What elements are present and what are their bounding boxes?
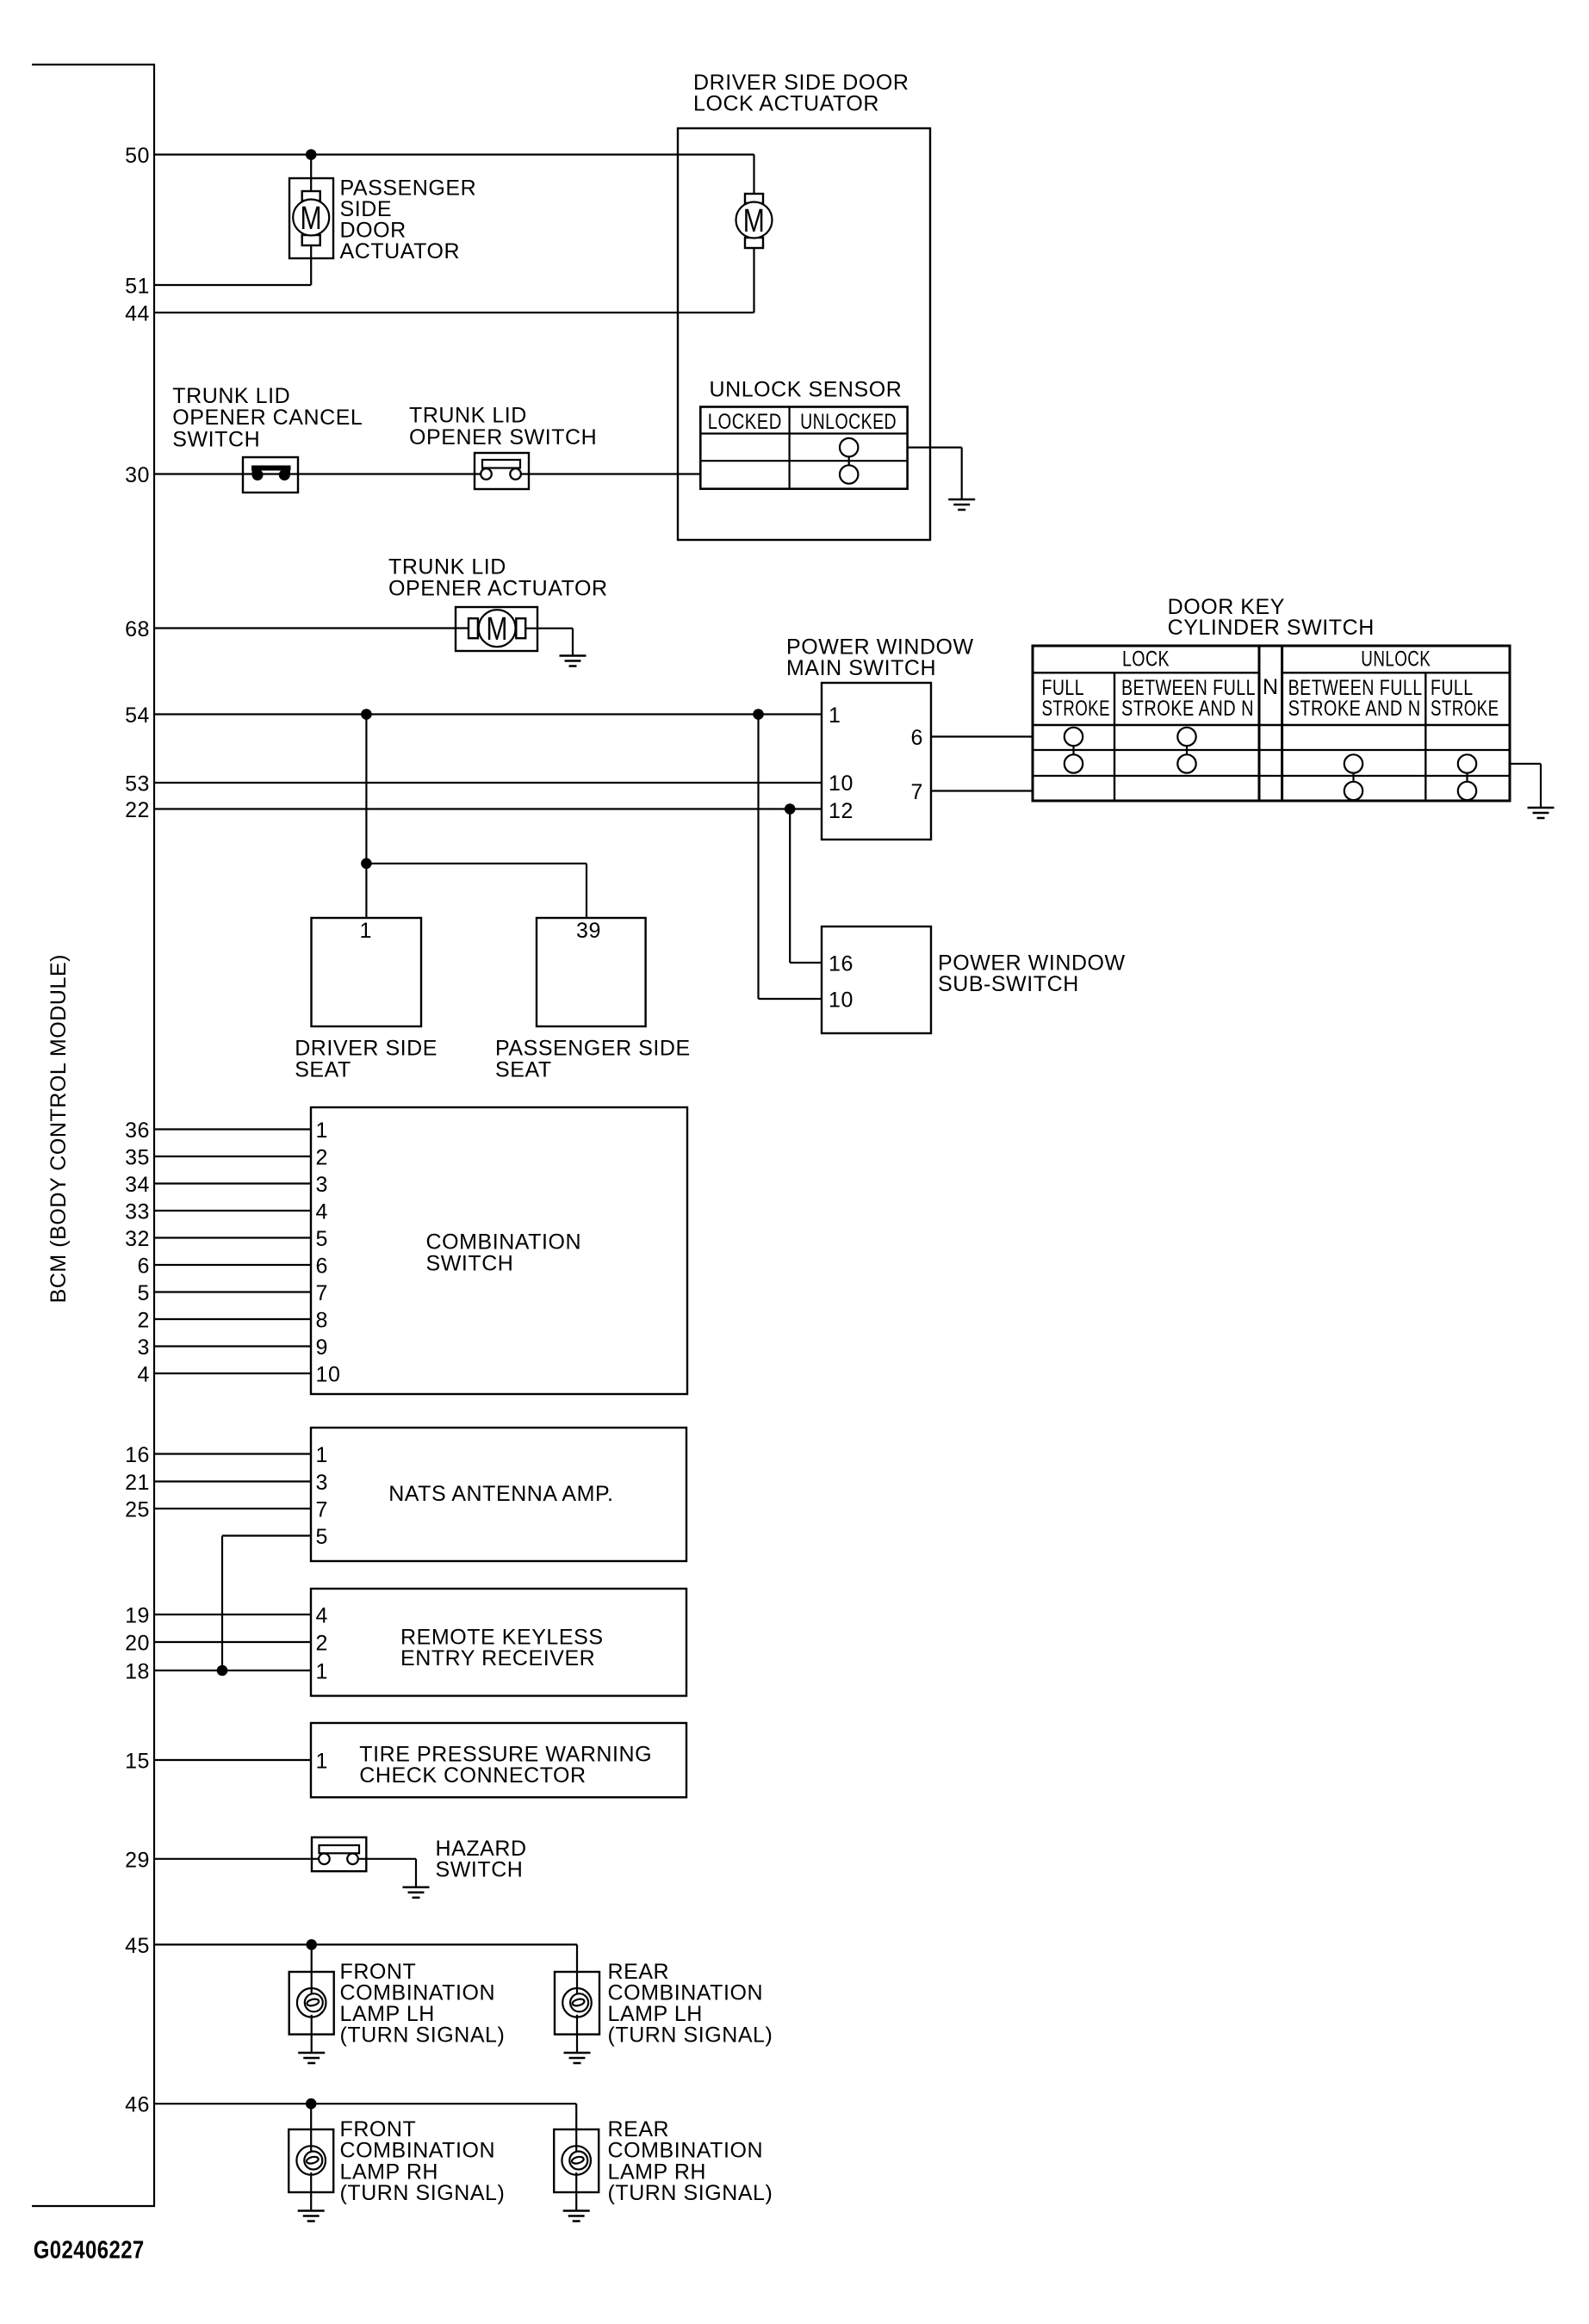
svg-text:54: 54	[125, 703, 150, 728]
svg-text:OPENER SWITCH: OPENER SWITCH	[409, 425, 597, 449]
svg-text:SWITCH: SWITCH	[172, 428, 260, 452]
svg-text:29: 29	[125, 1848, 150, 1872]
svg-text:4: 4	[316, 1604, 328, 1628]
svg-text:STROKE: STROKE	[1431, 697, 1499, 721]
svg-text:N: N	[1263, 675, 1279, 699]
svg-text:36: 36	[125, 1119, 150, 1143]
svg-text:(TURN SIGNAL): (TURN SIGNAL)	[608, 2181, 773, 2205]
svg-text:(TURN SIGNAL): (TURN SIGNAL)	[340, 2181, 506, 2205]
svg-text:1: 1	[316, 1750, 328, 1774]
svg-text:32: 32	[125, 1227, 150, 1251]
svg-text:4: 4	[138, 1363, 150, 1387]
svg-text:CHECK CONNECTOR: CHECK CONNECTOR	[359, 1763, 586, 1788]
svg-text:3: 3	[316, 1471, 328, 1495]
svg-text:CYLINDER SWITCH: CYLINDER SWITCH	[1168, 616, 1375, 640]
svg-text:UNLOCK SENSOR: UNLOCK SENSOR	[710, 377, 903, 401]
svg-text:SWITCH: SWITCH	[426, 1251, 514, 1275]
svg-text:2: 2	[316, 1632, 328, 1656]
svg-text:15: 15	[125, 1750, 150, 1774]
svg-text:1: 1	[316, 1660, 328, 1684]
svg-text:53: 53	[125, 772, 150, 796]
svg-text:6: 6	[911, 726, 923, 750]
svg-text:OPENER ACTUATOR: OPENER ACTUATOR	[388, 577, 608, 601]
svg-text:LOCKED: LOCKED	[708, 410, 782, 434]
svg-text:TRUNK LID: TRUNK LID	[409, 403, 527, 427]
svg-text:SEAT: SEAT	[295, 1057, 351, 1081]
svg-text:LOCK ACTUATOR: LOCK ACTUATOR	[693, 92, 879, 116]
svg-text:1: 1	[316, 1119, 328, 1143]
svg-text:SWITCH: SWITCH	[436, 1858, 524, 1882]
svg-text:5: 5	[316, 1525, 328, 1549]
svg-text:21: 21	[125, 1471, 150, 1495]
svg-text:M: M	[301, 201, 323, 237]
svg-text:1: 1	[316, 1443, 328, 1467]
svg-text:BCM (BODY CONTROL MODULE): BCM (BODY CONTROL MODULE)	[47, 954, 71, 1303]
svg-text:SUB-SWITCH: SUB-SWITCH	[938, 972, 1079, 996]
svg-text:9: 9	[316, 1336, 328, 1360]
svg-text:50: 50	[125, 144, 150, 168]
svg-text:20: 20	[125, 1632, 150, 1656]
svg-text:7: 7	[911, 780, 923, 804]
svg-text:6: 6	[316, 1255, 328, 1279]
svg-text:6: 6	[138, 1255, 150, 1279]
svg-text:68: 68	[125, 617, 150, 641]
svg-text:46: 46	[125, 2093, 150, 2117]
svg-text:(TURN SIGNAL): (TURN SIGNAL)	[608, 2023, 773, 2048]
svg-text:51: 51	[125, 275, 150, 299]
svg-text:1: 1	[829, 703, 841, 728]
svg-text:7: 7	[316, 1498, 328, 1522]
svg-text:5: 5	[316, 1227, 328, 1251]
svg-text:NATS ANTENNA AMP.: NATS ANTENNA AMP.	[388, 1482, 613, 1506]
svg-text:SEAT: SEAT	[495, 1057, 552, 1081]
svg-text:UNLOCKED: UNLOCKED	[800, 410, 897, 434]
svg-text:3: 3	[138, 1336, 150, 1360]
svg-text:35: 35	[125, 1146, 150, 1170]
svg-text:2: 2	[138, 1309, 150, 1333]
svg-text:ACTUATOR: ACTUATOR	[340, 239, 461, 263]
svg-text:16: 16	[125, 1443, 150, 1467]
svg-text:G02406227: G02406227	[34, 2237, 145, 2265]
svg-text:MAIN SWITCH: MAIN SWITCH	[786, 656, 936, 680]
svg-text:M: M	[743, 203, 766, 239]
svg-text:45: 45	[125, 1934, 150, 1958]
svg-text:4: 4	[316, 1200, 328, 1224]
svg-text:TRUNK LID: TRUNK LID	[388, 555, 506, 579]
svg-text:22: 22	[125, 798, 150, 822]
svg-text:10: 10	[829, 988, 853, 1013]
svg-text:TRUNK LID: TRUNK LID	[172, 384, 290, 408]
svg-text:1: 1	[360, 919, 372, 943]
svg-text:33: 33	[125, 1200, 150, 1224]
svg-text:7: 7	[316, 1281, 328, 1305]
svg-text:19: 19	[125, 1604, 150, 1628]
svg-text:LOCK: LOCK	[1122, 648, 1170, 672]
svg-text:M: M	[486, 611, 508, 648]
svg-text:(TURN SIGNAL): (TURN SIGNAL)	[340, 2023, 506, 2048]
svg-text:10: 10	[829, 772, 853, 796]
svg-text:16: 16	[829, 952, 853, 976]
svg-text:STROKE AND N: STROKE AND N	[1288, 697, 1421, 721]
svg-text:3: 3	[316, 1173, 328, 1197]
svg-text:STROKE AND N: STROKE AND N	[1121, 697, 1254, 721]
svg-text:12: 12	[829, 799, 853, 823]
svg-text:18: 18	[125, 1660, 150, 1684]
svg-text:STROKE: STROKE	[1042, 697, 1111, 721]
svg-text:25: 25	[125, 1498, 150, 1522]
svg-text:39: 39	[576, 919, 601, 943]
svg-text:OPENER CANCEL: OPENER CANCEL	[172, 406, 363, 430]
svg-text:34: 34	[125, 1173, 150, 1197]
svg-text:30: 30	[125, 463, 150, 487]
svg-text:2: 2	[316, 1146, 328, 1170]
svg-text:8: 8	[316, 1309, 328, 1333]
svg-text:5: 5	[138, 1281, 150, 1305]
svg-text:UNLOCK: UNLOCK	[1361, 648, 1431, 672]
svg-text:ENTRY RECEIVER: ENTRY RECEIVER	[400, 1646, 595, 1670]
svg-text:10: 10	[316, 1363, 341, 1387]
svg-text:44: 44	[125, 302, 150, 326]
